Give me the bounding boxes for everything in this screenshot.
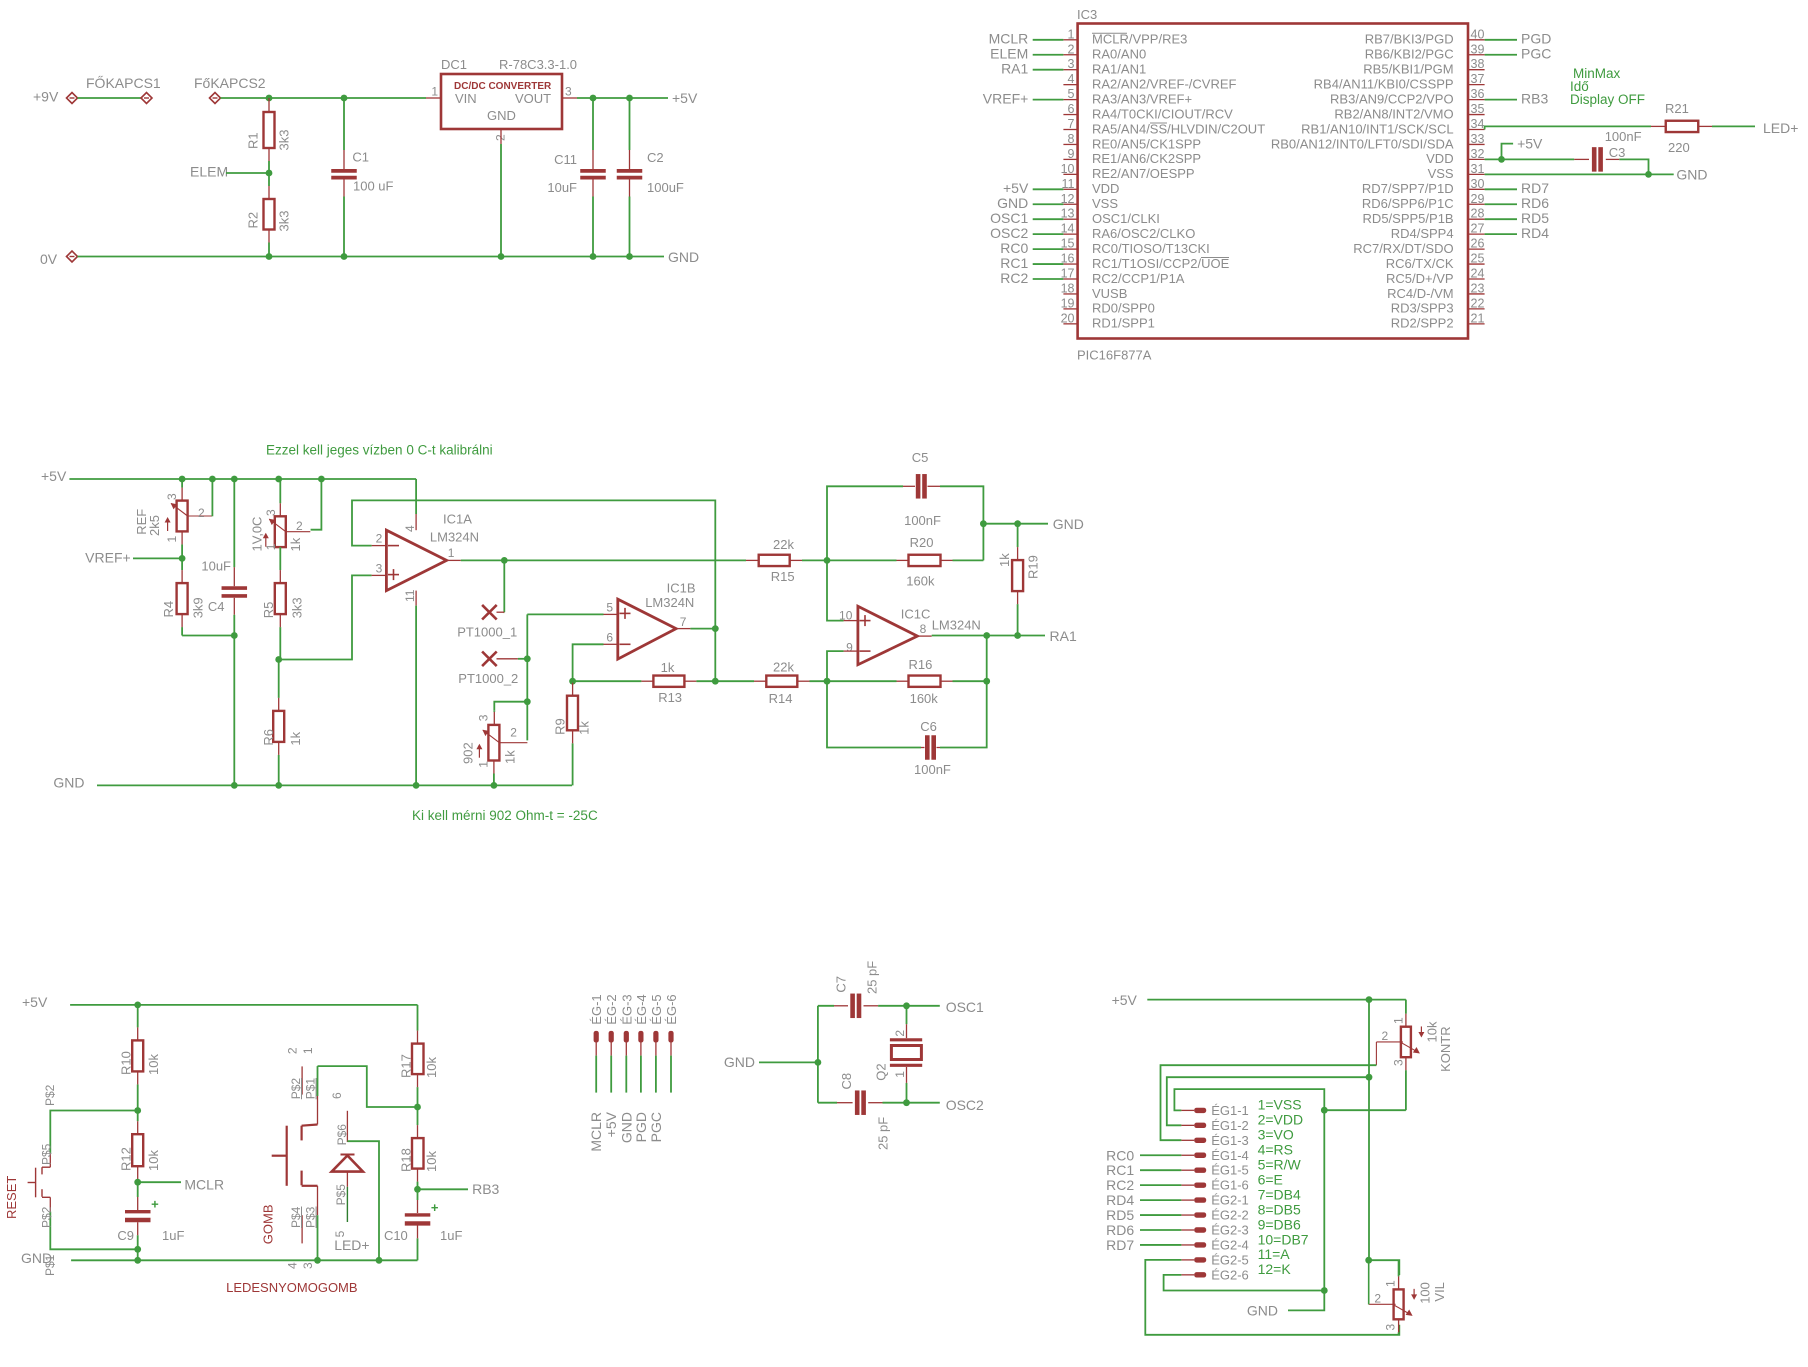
- svg-text:1: 1: [1392, 1017, 1406, 1024]
- svg-text:36: 36: [1471, 87, 1485, 101]
- svg-text:0V: 0V: [40, 251, 58, 267]
- svg-text:100 uF: 100 uF: [353, 179, 394, 194]
- svg-text:R12: R12: [119, 1147, 134, 1171]
- svg-text:5=R/W: 5=R/W: [1258, 1157, 1302, 1173]
- svg-text:1k: 1k: [288, 537, 303, 551]
- svg-text:5: 5: [606, 601, 613, 615]
- svg-text:4: 4: [1068, 72, 1075, 86]
- svg-text:11: 11: [403, 589, 417, 602]
- svg-text:2: 2: [510, 726, 517, 740]
- svg-text:18: 18: [1061, 281, 1075, 295]
- svg-text:1V,0C: 1V,0C: [250, 517, 265, 552]
- svg-text:RB5/KBI1/PGM: RB5/KBI1/PGM: [1363, 62, 1453, 77]
- svg-text:4: 4: [403, 525, 417, 532]
- svg-text:GND: GND: [724, 1054, 755, 1070]
- svg-text:RA1: RA1: [1001, 61, 1028, 77]
- svg-text:+5V: +5V: [1517, 136, 1543, 152]
- svg-text:R21: R21: [1665, 101, 1689, 116]
- svg-text:2: 2: [1374, 1292, 1381, 1306]
- svg-text:RC2/CCP1/P1A: RC2/CCP1/P1A: [1092, 271, 1185, 286]
- svg-text:C11: C11: [554, 152, 577, 167]
- svg-text:GND: GND: [668, 249, 699, 265]
- svg-text:32: 32: [1471, 147, 1485, 161]
- svg-text:1: 1: [264, 543, 278, 550]
- svg-text:RC0: RC0: [1000, 240, 1028, 256]
- svg-text:34: 34: [1471, 117, 1485, 131]
- svg-text:3: 3: [165, 493, 179, 500]
- svg-text:FőKAPCS2: FőKAPCS2: [194, 75, 266, 91]
- svg-text:LED+: LED+: [334, 1237, 369, 1253]
- svg-text:25 pF: 25 pF: [865, 961, 880, 994]
- svg-text:3: 3: [1068, 57, 1075, 71]
- svg-text:OSC2: OSC2: [946, 1097, 984, 1113]
- svg-text:RB1/AN10/INT1/SCK/SCL: RB1/AN10/INT1/SCK/SCL: [1301, 121, 1453, 136]
- svg-text:GOMB: GOMB: [261, 1204, 276, 1244]
- svg-text:2: 2: [285, 1047, 299, 1054]
- svg-text:P$3: P$3: [304, 1206, 318, 1228]
- svg-text:1: 1: [1068, 27, 1075, 41]
- svg-text:RD6: RD6: [1521, 195, 1549, 211]
- svg-text:+5V: +5V: [41, 468, 67, 484]
- svg-text:OSC2: OSC2: [990, 225, 1028, 241]
- svg-text:6: 6: [330, 1092, 344, 1099]
- svg-text:RD5/SPP5/P1B: RD5/SPP5/P1B: [1363, 211, 1454, 226]
- svg-text:902: 902: [461, 742, 476, 764]
- svg-text:10=DB7: 10=DB7: [1258, 1231, 1309, 1247]
- svg-text:RB3: RB3: [472, 1181, 499, 1197]
- svg-text:LEDESNYOMOGOMB: LEDESNYOMOGOMB: [226, 1280, 357, 1295]
- svg-text:P$2: P$2: [43, 1084, 57, 1106]
- svg-text:ÉG1-3: ÉG1-3: [1211, 1133, 1249, 1148]
- svg-text:+5V: +5V: [603, 1111, 619, 1137]
- svg-text:RC4/D-/VM: RC4/D-/VM: [1387, 286, 1453, 301]
- svg-text:28: 28: [1471, 207, 1485, 221]
- svg-text:GND: GND: [487, 108, 516, 123]
- svg-text:RB6/KBI2/PGC: RB6/KBI2/PGC: [1365, 47, 1454, 62]
- svg-text:GND: GND: [53, 775, 84, 791]
- svg-text:R5: R5: [261, 602, 276, 619]
- svg-text:100: 100: [1418, 1282, 1433, 1304]
- svg-text:+: +: [431, 1200, 439, 1215]
- svg-text:IC1C: IC1C: [901, 606, 931, 621]
- svg-text:6: 6: [606, 630, 613, 644]
- svg-text:RD7: RD7: [1521, 180, 1549, 196]
- svg-text:GND: GND: [618, 1112, 634, 1143]
- svg-text:RD6/SPP6/P1C: RD6/SPP6/P1C: [1362, 196, 1454, 211]
- svg-text:RD4/SPP4: RD4/SPP4: [1391, 226, 1454, 241]
- svg-text:C10: C10: [384, 1228, 408, 1243]
- svg-text:R1: R1: [246, 132, 261, 149]
- svg-text:RA2/AN2/VREF-/CVREF: RA2/AN2/VREF-/CVREF: [1092, 76, 1237, 91]
- svg-text:IC1B: IC1B: [667, 581, 696, 596]
- svg-text:VREF+: VREF+: [85, 550, 131, 566]
- svg-text:P$6: P$6: [335, 1124, 349, 1146]
- svg-text:4=RS: 4=RS: [1258, 1142, 1293, 1158]
- svg-text:3k3: 3k3: [277, 130, 292, 151]
- svg-text:RD6: RD6: [1106, 1222, 1134, 1238]
- svg-text:19: 19: [1061, 296, 1075, 310]
- svg-text:2: 2: [296, 519, 303, 533]
- svg-text:2k5: 2k5: [147, 515, 162, 536]
- svg-text:PIC16F877A: PIC16F877A: [1077, 348, 1152, 363]
- svg-text:9: 9: [1068, 147, 1075, 161]
- svg-text:P$2: P$2: [40, 1206, 54, 1228]
- svg-text:DC1: DC1: [441, 57, 467, 72]
- svg-text:3: 3: [477, 714, 491, 721]
- svg-text:1: 1: [448, 546, 455, 560]
- svg-text:PGC: PGC: [1521, 46, 1551, 62]
- svg-text:RB7/BKI3/PGD: RB7/BKI3/PGD: [1365, 32, 1454, 47]
- svg-text:R2: R2: [246, 212, 261, 229]
- svg-text:VIN: VIN: [455, 91, 477, 106]
- svg-text:IC1A: IC1A: [443, 512, 472, 527]
- svg-text:30: 30: [1471, 177, 1485, 191]
- svg-text:R9: R9: [553, 718, 568, 735]
- svg-text:PGC: PGC: [648, 1112, 664, 1142]
- svg-text:Ezzel kell jeges vízben 0 C-t: Ezzel kell jeges vízben 0 C-t kalibrálni: [266, 443, 493, 458]
- svg-text:R-78C3.3-1.0: R-78C3.3-1.0: [499, 57, 577, 72]
- svg-text:25: 25: [1471, 252, 1485, 266]
- svg-text:6: 6: [1068, 102, 1075, 116]
- svg-text:ÉG1-5: ÉG1-5: [1211, 1163, 1249, 1178]
- svg-text:RD5: RD5: [1106, 1207, 1134, 1223]
- svg-text:ÉG2-6: ÉG2-6: [1211, 1267, 1249, 1282]
- svg-text:RD0/SPP0: RD0/SPP0: [1092, 301, 1155, 316]
- svg-text:RC1: RC1: [1106, 1162, 1134, 1178]
- svg-text:VDD: VDD: [1092, 181, 1119, 196]
- svg-text:ÉG-2: ÉG-2: [604, 994, 619, 1024]
- svg-text:3: 3: [565, 85, 572, 99]
- svg-text:RE1/AN6/CK2SPP: RE1/AN6/CK2SPP: [1092, 151, 1201, 166]
- svg-text:3k3: 3k3: [290, 597, 305, 618]
- svg-text:C9: C9: [117, 1228, 134, 1243]
- svg-text:RC5/D+/VP: RC5/D+/VP: [1386, 271, 1454, 286]
- svg-text:100nF: 100nF: [1605, 129, 1642, 144]
- svg-text:VIL: VIL: [1432, 1282, 1447, 1302]
- svg-text:C4: C4: [208, 599, 225, 614]
- svg-text:29: 29: [1471, 192, 1485, 206]
- svg-text:2: 2: [893, 1030, 907, 1037]
- svg-text:RD7: RD7: [1106, 1237, 1134, 1253]
- svg-text:8=DB5: 8=DB5: [1258, 1201, 1301, 1217]
- svg-text:ÉG2-3: ÉG2-3: [1211, 1223, 1249, 1238]
- svg-text:2: 2: [198, 506, 205, 520]
- svg-text:ÉG-3: ÉG-3: [619, 994, 634, 1024]
- svg-text:31: 31: [1471, 162, 1485, 176]
- svg-text:23: 23: [1471, 281, 1485, 295]
- svg-text:R16: R16: [909, 657, 933, 672]
- svg-text:37: 37: [1471, 72, 1485, 86]
- svg-text:KONTR: KONTR: [1438, 1026, 1453, 1072]
- svg-text:10: 10: [839, 609, 853, 623]
- svg-text:C1: C1: [352, 150, 369, 165]
- svg-text:220: 220: [1668, 140, 1690, 155]
- svg-text:ÉG1-1: ÉG1-1: [1211, 1103, 1249, 1118]
- svg-text:22k: 22k: [773, 537, 794, 552]
- svg-text:Display OFF: Display OFF: [1570, 92, 1645, 107]
- svg-text:OSC1: OSC1: [946, 999, 984, 1015]
- svg-text:8: 8: [920, 622, 927, 636]
- svg-text:RC7/RX/DT/SDO: RC7/RX/DT/SDO: [1353, 241, 1453, 256]
- svg-text:39: 39: [1471, 42, 1485, 56]
- svg-text:C3: C3: [1609, 145, 1626, 160]
- svg-text:C2: C2: [647, 150, 664, 165]
- svg-text:ÉG1-6: ÉG1-6: [1211, 1178, 1249, 1193]
- svg-text:1: 1: [893, 1071, 907, 1078]
- svg-text:RD7/SPP7/P1D: RD7/SPP7/P1D: [1362, 181, 1454, 196]
- svg-text:2: 2: [1382, 1029, 1389, 1043]
- svg-text:R20: R20: [910, 535, 934, 550]
- svg-text:2: 2: [1068, 42, 1075, 56]
- svg-text:9=DB6: 9=DB6: [1258, 1216, 1301, 1232]
- svg-text:160k: 160k: [910, 691, 939, 706]
- svg-text:RD5: RD5: [1521, 210, 1549, 226]
- svg-text:PT1000_2: PT1000_2: [458, 671, 518, 686]
- svg-text:PGD: PGD: [633, 1112, 649, 1142]
- svg-text:3=VO: 3=VO: [1258, 1127, 1294, 1143]
- svg-text:ÉG2-5: ÉG2-5: [1211, 1252, 1249, 1267]
- svg-text:+5V: +5V: [22, 994, 48, 1010]
- svg-text:ÉG2-2: ÉG2-2: [1211, 1208, 1249, 1223]
- svg-text:P$2: P$2: [289, 1078, 303, 1100]
- svg-text:3: 3: [376, 561, 383, 575]
- svg-text:R19: R19: [1025, 555, 1040, 579]
- svg-text:RC1: RC1: [1000, 255, 1028, 271]
- svg-text:3: 3: [301, 1262, 315, 1269]
- svg-text:7: 7: [680, 615, 687, 629]
- svg-text:VDD: VDD: [1426, 151, 1453, 166]
- svg-text:RC0/TIOSO/T13CKI: RC0/TIOSO/T13CKI: [1092, 241, 1210, 256]
- svg-text:RB3/AN9/CCP2/VPO: RB3/AN9/CCP2/VPO: [1330, 91, 1454, 106]
- svg-text:100nF: 100nF: [904, 513, 941, 528]
- svg-text:10k: 10k: [146, 1054, 161, 1075]
- svg-text:RC0: RC0: [1106, 1147, 1134, 1163]
- svg-text:24: 24: [1471, 267, 1485, 281]
- svg-text:RA0/AN0: RA0/AN0: [1092, 47, 1146, 62]
- svg-text:P$1: P$1: [43, 1254, 57, 1276]
- svg-text:12=K: 12=K: [1258, 1261, 1292, 1277]
- svg-text:LM324N: LM324N: [932, 618, 981, 633]
- svg-text:1: 1: [301, 1047, 315, 1054]
- svg-text:RA4/T0CKI/CIOUT/RCV: RA4/T0CKI/CIOUT/RCV: [1092, 106, 1233, 121]
- svg-text:10k: 10k: [146, 1150, 161, 1171]
- svg-text:GND: GND: [1247, 1303, 1278, 1319]
- svg-text:33: 33: [1471, 132, 1485, 146]
- svg-text:3: 3: [264, 509, 278, 516]
- svg-text:RC6/TX/CK: RC6/TX/CK: [1386, 256, 1454, 271]
- svg-text:3: 3: [1384, 1324, 1398, 1331]
- svg-text:100nF: 100nF: [914, 762, 951, 777]
- svg-text:1uF: 1uF: [162, 1228, 184, 1243]
- svg-text:1: 1: [1384, 1280, 1398, 1287]
- svg-text:C6: C6: [920, 719, 937, 734]
- svg-text:38: 38: [1471, 57, 1485, 71]
- svg-text:27: 27: [1471, 222, 1485, 236]
- svg-text:ÉG2-1: ÉG2-1: [1211, 1193, 1249, 1208]
- svg-text:10k: 10k: [424, 1057, 439, 1078]
- svg-text:4: 4: [285, 1262, 299, 1269]
- svg-text:+5V: +5V: [1112, 992, 1138, 1008]
- svg-text:LM324N: LM324N: [430, 529, 479, 544]
- svg-text:10k: 10k: [424, 1151, 439, 1172]
- svg-text:RA1/AN1: RA1/AN1: [1092, 62, 1146, 77]
- svg-text:RC2: RC2: [1000, 270, 1028, 286]
- svg-text:25 pF: 25 pF: [876, 1117, 891, 1150]
- svg-text:RD1/SPP1: RD1/SPP1: [1092, 316, 1155, 331]
- svg-text:10uF: 10uF: [547, 180, 577, 195]
- svg-text:RA3/AN3/VREF+: RA3/AN3/VREF+: [1092, 91, 1192, 106]
- svg-text:RE2/AN7/OESPP: RE2/AN7/OESPP: [1092, 166, 1195, 181]
- svg-text:26: 26: [1471, 237, 1485, 251]
- svg-text:8: 8: [1068, 132, 1075, 146]
- svg-text:R18: R18: [399, 1148, 414, 1172]
- svg-text:GND: GND: [1053, 516, 1084, 532]
- svg-text:R6: R6: [261, 729, 276, 746]
- svg-text:OSC1: OSC1: [990, 210, 1028, 226]
- svg-text:RC2: RC2: [1106, 1177, 1134, 1193]
- svg-text:RD3/SPP3: RD3/SPP3: [1391, 301, 1454, 316]
- svg-text:RESET: RESET: [4, 1176, 19, 1219]
- svg-text:RA1: RA1: [1050, 628, 1077, 644]
- svg-text:R4: R4: [161, 601, 176, 618]
- svg-text:7=DB4: 7=DB4: [1258, 1186, 1301, 1202]
- svg-text:MCLR: MCLR: [989, 31, 1029, 47]
- svg-text:GND: GND: [1676, 166, 1707, 182]
- svg-text:PGD: PGD: [1521, 31, 1551, 47]
- svg-text:PT1000_1: PT1000_1: [457, 625, 517, 640]
- svg-text:9: 9: [846, 641, 853, 655]
- svg-text:2: 2: [376, 532, 383, 546]
- svg-text:ELEM: ELEM: [990, 46, 1028, 62]
- svg-text:1: 1: [477, 761, 491, 768]
- svg-text:RB0/AN12/INT0/LFT0/SDI/SDA: RB0/AN12/INT0/LFT0/SDI/SDA: [1271, 136, 1454, 151]
- svg-text:11=A: 11=A: [1258, 1246, 1291, 1262]
- svg-text:160k: 160k: [906, 573, 935, 588]
- svg-text:100uF: 100uF: [647, 180, 684, 195]
- svg-text:C8: C8: [839, 1073, 854, 1090]
- svg-text:3: 3: [1392, 1059, 1406, 1066]
- svg-text:RD4: RD4: [1521, 225, 1549, 241]
- svg-text:ÉG1-4: ÉG1-4: [1211, 1148, 1249, 1163]
- svg-text:1k: 1k: [577, 721, 592, 735]
- svg-text:+5V: +5V: [1003, 180, 1029, 196]
- svg-text:P$5: P$5: [334, 1184, 348, 1206]
- svg-text:20: 20: [1061, 311, 1075, 325]
- svg-text:RA5/AN4/SS/HLVDIN/C2OUT: RA5/AN4/SS/HLVDIN/C2OUT: [1092, 121, 1265, 136]
- svg-text:Q2: Q2: [874, 1063, 889, 1080]
- svg-text:P$4: P$4: [289, 1206, 303, 1228]
- svg-text:RA6/OSC2/CLKO: RA6/OSC2/CLKO: [1092, 226, 1195, 241]
- svg-text:11: 11: [1062, 177, 1075, 191]
- svg-text:+9V: +9V: [33, 89, 59, 105]
- svg-text:ÉG-6: ÉG-6: [664, 994, 679, 1024]
- svg-text:RB3: RB3: [1521, 90, 1548, 106]
- svg-text:7: 7: [1068, 117, 1075, 131]
- svg-text:3k9: 3k9: [191, 597, 206, 618]
- svg-text:+: +: [151, 1197, 159, 1212]
- svg-text:MCLR/VPP/RE3: MCLR/VPP/RE3: [1092, 32, 1187, 47]
- svg-text:21: 21: [1471, 311, 1485, 325]
- svg-text:6=E: 6=E: [1258, 1171, 1283, 1187]
- svg-text:3k3: 3k3: [277, 211, 292, 232]
- svg-text:MCLR: MCLR: [184, 1176, 224, 1192]
- svg-text:C5: C5: [912, 450, 929, 465]
- svg-text:P$1: P$1: [304, 1078, 318, 1100]
- svg-text:ÉG-4: ÉG-4: [634, 994, 649, 1024]
- svg-text:ÉG-5: ÉG-5: [649, 994, 664, 1024]
- svg-text:5: 5: [1068, 87, 1075, 101]
- svg-text:IC3: IC3: [1077, 7, 1097, 22]
- svg-text:LED+: LED+: [1763, 120, 1798, 136]
- svg-text:ELEM: ELEM: [190, 164, 228, 180]
- svg-text:VOUT: VOUT: [515, 91, 551, 106]
- svg-text:22: 22: [1471, 296, 1485, 310]
- svg-text:1k: 1k: [503, 750, 518, 764]
- svg-text:RC1/T1OSI/CCP2/UOE: RC1/T1OSI/CCP2/UOE: [1092, 256, 1230, 271]
- svg-text:RD4: RD4: [1106, 1192, 1134, 1208]
- svg-text:VUSB: VUSB: [1092, 286, 1127, 301]
- svg-text:VSS: VSS: [1428, 166, 1454, 181]
- svg-text:1: 1: [165, 536, 179, 543]
- svg-text:22k: 22k: [773, 659, 794, 674]
- svg-text:RB4/AN11/KBI0/CSSPP: RB4/AN11/KBI0/CSSPP: [1314, 76, 1454, 91]
- svg-text:1=VSS: 1=VSS: [1258, 1097, 1302, 1113]
- svg-text:P$5: P$5: [40, 1143, 54, 1165]
- svg-text:MCLR: MCLR: [588, 1112, 604, 1152]
- svg-text:FŐKAPCS1: FŐKAPCS1: [86, 75, 161, 91]
- svg-text:GND: GND: [997, 195, 1028, 211]
- svg-text:ÉG2-4: ÉG2-4: [1211, 1237, 1249, 1252]
- svg-text:R14: R14: [769, 691, 793, 706]
- svg-text:R15: R15: [771, 569, 795, 584]
- svg-text:10: 10: [1061, 162, 1075, 176]
- svg-text:ÉG-1: ÉG-1: [589, 994, 604, 1024]
- svg-text:10uF: 10uF: [201, 559, 231, 574]
- svg-text:35: 35: [1471, 102, 1485, 116]
- svg-text:1k: 1k: [661, 660, 675, 675]
- svg-text:40: 40: [1471, 27, 1485, 41]
- svg-text:ÉG1-2: ÉG1-2: [1211, 1118, 1249, 1133]
- svg-text:C7: C7: [834, 976, 849, 993]
- svg-text:RB2/AN8/INT2/VMO: RB2/AN8/INT2/VMO: [1334, 106, 1453, 121]
- svg-text:R13: R13: [658, 690, 682, 705]
- svg-text:1uF: 1uF: [440, 1228, 462, 1243]
- svg-text:R17: R17: [399, 1054, 414, 1078]
- svg-text:RD2/SPP2: RD2/SPP2: [1391, 316, 1454, 331]
- svg-text:1k: 1k: [288, 731, 303, 745]
- svg-text:LM324N: LM324N: [645, 595, 694, 610]
- svg-text:RE0/AN5/CK1SPP: RE0/AN5/CK1SPP: [1092, 136, 1201, 151]
- svg-text:VSS: VSS: [1092, 196, 1118, 211]
- svg-text:R10: R10: [119, 1051, 134, 1075]
- svg-text:OSC1/CLKI: OSC1/CLKI: [1092, 211, 1160, 226]
- svg-text:VREF+: VREF+: [983, 90, 1029, 106]
- svg-text:1: 1: [431, 85, 438, 99]
- svg-text:+5V: +5V: [672, 90, 698, 106]
- svg-text:Ki kell mérni 902 Ohm-t = -25C: Ki kell mérni 902 Ohm-t = -25C: [412, 808, 598, 823]
- svg-text:1k: 1k: [997, 553, 1012, 567]
- svg-text:2=VDD: 2=VDD: [1258, 1112, 1304, 1128]
